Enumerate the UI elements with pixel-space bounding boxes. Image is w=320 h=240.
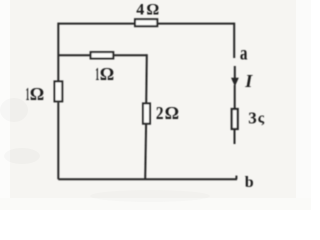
wire top left segment [58,23,135,25]
resistor R 3ohm (box) [232,109,238,129]
wire left vertical lower [57,102,59,179]
svg-text:b: b [245,174,254,191]
wire middle vertical lower [144,124,147,180]
svg-text:Ω: Ω [165,103,179,123]
wire below 3-ohm resistor [234,129,236,144]
wire right vertical to terminal a [233,23,235,58]
faint scan smudge left mid [0,98,28,122]
svg-text:1: 1 [95,66,99,85]
wire middle vertical upper [145,54,148,103]
faint scan smudge left lower [4,148,40,164]
svg-text:a: a [240,42,248,65]
svg-text:3: 3 [248,109,256,128]
terminal b tick [235,176,237,180]
resistor R 4ohm (box) [135,19,157,26]
svg-text:Ω: Ω [100,64,114,84]
resistor R 1ohm middle (box) [91,52,114,58]
wire inner horizontal right segment [113,54,147,56]
svg-text:I: I [244,71,253,91]
wire left vertical upper [57,23,59,81]
wire top right segment [157,23,234,25]
svg-text:4: 4 [136,2,144,19]
current arrow I (line) [234,66,236,79]
current arrow I (head) [231,78,239,87]
svg-text:Ω: Ω [146,2,159,19]
svg-text:2: 2 [156,103,164,123]
resistor R 1ohm left (box) [55,81,63,101]
svg-text:Ω: Ω [30,84,44,104]
wire inner horizontal left segment [58,54,90,56]
resistor R 2ohm (box) [143,103,150,123]
faint scan smudge center low [90,190,210,202]
svg-text:ς: ς [258,111,265,127]
wire arrow to 3-ohm resistor [234,85,236,109]
wire bottom [58,178,237,180]
